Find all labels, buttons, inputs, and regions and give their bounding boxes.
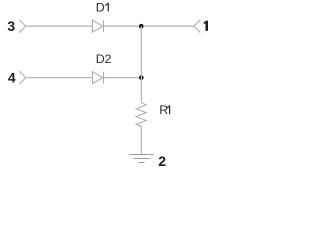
wire D2 cathode to junction bbox=[104, 77, 142, 79]
resistor R1 bbox=[136, 103, 146, 126]
wire port3 to D1 anode bbox=[26, 25, 93, 27]
svg-text:2: 2 bbox=[158, 153, 166, 169]
svg-text:D: D bbox=[96, 1, 105, 15]
svg-text:D2: D2 bbox=[96, 52, 112, 66]
svg-text:4: 4 bbox=[8, 70, 16, 86]
wire port4 to D2 anode bbox=[26, 77, 93, 79]
port 3 bbox=[19, 20, 26, 33]
diode D2 bbox=[92, 72, 103, 84]
wire D1 cathode to port 1 bbox=[104, 25, 194, 27]
label R1 bbox=[159, 103, 170, 117]
port 1 bbox=[194, 20, 200, 33]
node 1 label bbox=[204, 21, 208, 31]
svg-text:3: 3 bbox=[7, 18, 15, 34]
wire resistor to ground bbox=[140, 126, 142, 154]
port 4 bbox=[19, 71, 26, 84]
junction node top bbox=[139, 24, 144, 29]
diode D1 bbox=[92, 20, 103, 32]
vertical wire node to resistor bbox=[140, 26, 142, 103]
svg-text:R: R bbox=[159, 103, 168, 117]
label D1 bbox=[96, 1, 109, 15]
ground bbox=[130, 155, 154, 163]
junction node bottom bbox=[139, 75, 144, 80]
